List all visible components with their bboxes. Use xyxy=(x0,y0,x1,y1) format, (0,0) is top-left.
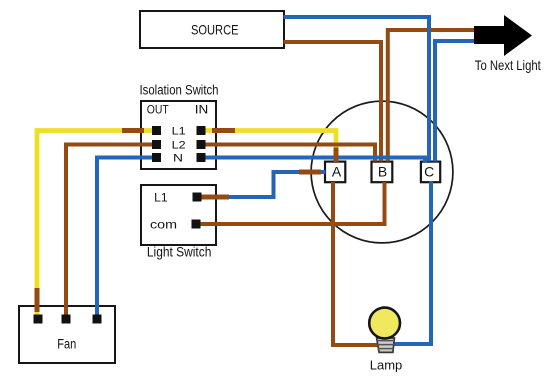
wire yellow OUT L1 to Fan xyxy=(37,131,152,316)
terminal fan 2 xyxy=(62,315,71,324)
svg-text:N: N xyxy=(173,152,183,164)
wire brown node B to next-light arrow xyxy=(388,30,474,162)
terminal OUT L2 xyxy=(152,140,161,149)
label com xyxy=(150,217,177,231)
label OUT xyxy=(147,104,169,116)
svg-text:L2: L2 xyxy=(172,139,186,151)
label L1 light switch xyxy=(154,192,168,204)
lamp base xyxy=(377,338,395,352)
label SOURCE xyxy=(191,22,239,38)
svg-text:Light Switch: Light Switch xyxy=(147,244,212,259)
label L1 row xyxy=(172,125,186,137)
svg-text:Lamp: Lamp xyxy=(370,359,403,373)
label node B xyxy=(378,164,387,180)
terminal light switch L1 xyxy=(193,193,202,202)
node C box xyxy=(421,162,440,183)
svg-text:B: B xyxy=(378,164,387,180)
terminal fan 3 xyxy=(93,315,102,324)
svg-text:A: A xyxy=(332,164,342,180)
wire brown node A to lamp xyxy=(333,182,378,345)
wire brown SOURCE live to node B top xyxy=(284,42,382,162)
node A box xyxy=(325,162,345,183)
label Fan xyxy=(57,337,76,352)
label Isolation Switch xyxy=(140,82,219,97)
svg-text:To Next Light: To Next Light xyxy=(475,57,541,73)
svg-text:SOURCE: SOURCE xyxy=(191,22,239,38)
wire brown OUT L2 to Fan xyxy=(66,145,152,316)
label L2 row xyxy=(172,139,186,151)
wire blue OUT N to Fan xyxy=(97,158,152,316)
wire blue IN N to node C xyxy=(206,158,426,163)
lamp bulb xyxy=(369,308,400,339)
label N row xyxy=(173,152,183,164)
svg-text:OUT: OUT xyxy=(147,104,169,116)
junction box circle xyxy=(311,101,453,243)
brown sleeve on yellow wire above Fan xyxy=(35,288,40,312)
SOURCE box xyxy=(140,11,284,48)
brown sleeve on yellow wire near OUT L1 xyxy=(122,128,144,133)
svg-text:Isolation Switch: Isolation Switch xyxy=(140,82,219,97)
svg-text:com: com xyxy=(150,217,177,231)
wire blue node C to next-light arrow xyxy=(435,41,474,162)
brown sleeve on yellow wire above node A xyxy=(334,148,339,163)
svg-text:Fan: Fan xyxy=(57,337,76,352)
terminal light switch com xyxy=(192,220,201,229)
light switch box xyxy=(141,185,216,245)
label node C xyxy=(424,164,434,180)
wire blue node C to lamp xyxy=(394,182,432,345)
wire yellow IN L1 to node A xyxy=(206,131,337,151)
brown sleeve on yellow wire near IN L1 xyxy=(212,128,235,133)
terminal OUT L1 xyxy=(152,126,161,135)
fan box xyxy=(19,306,115,363)
wire blue SOURCE neutral to node C top xyxy=(284,17,430,162)
terminal IN L1 xyxy=(197,126,206,135)
brown sleeve on blue wire left of node A xyxy=(299,170,321,175)
label node A xyxy=(332,164,342,180)
svg-text:C: C xyxy=(424,164,434,180)
label IN xyxy=(195,104,209,116)
wire brown light switch com to node B bottom xyxy=(200,182,385,224)
svg-text:IN: IN xyxy=(195,104,209,116)
svg-text:L1: L1 xyxy=(172,125,186,137)
node B box xyxy=(372,162,393,183)
to next light arrow xyxy=(474,15,532,56)
brown sleeve at light switch L1 terminal xyxy=(201,195,229,200)
terminal IN N xyxy=(197,153,206,162)
label Lamp xyxy=(370,359,403,373)
wire brown IN L2 to node B top xyxy=(206,145,376,162)
terminal fan 1 xyxy=(34,315,43,324)
svg-text:L1: L1 xyxy=(154,192,168,204)
terminal IN L2 xyxy=(197,140,206,149)
label To Next Light xyxy=(475,57,541,73)
label Light Switch xyxy=(147,244,212,259)
terminal OUT N xyxy=(152,153,161,162)
isolation switch box xyxy=(141,101,216,169)
wire blue light switch L1 to node A xyxy=(224,172,326,197)
